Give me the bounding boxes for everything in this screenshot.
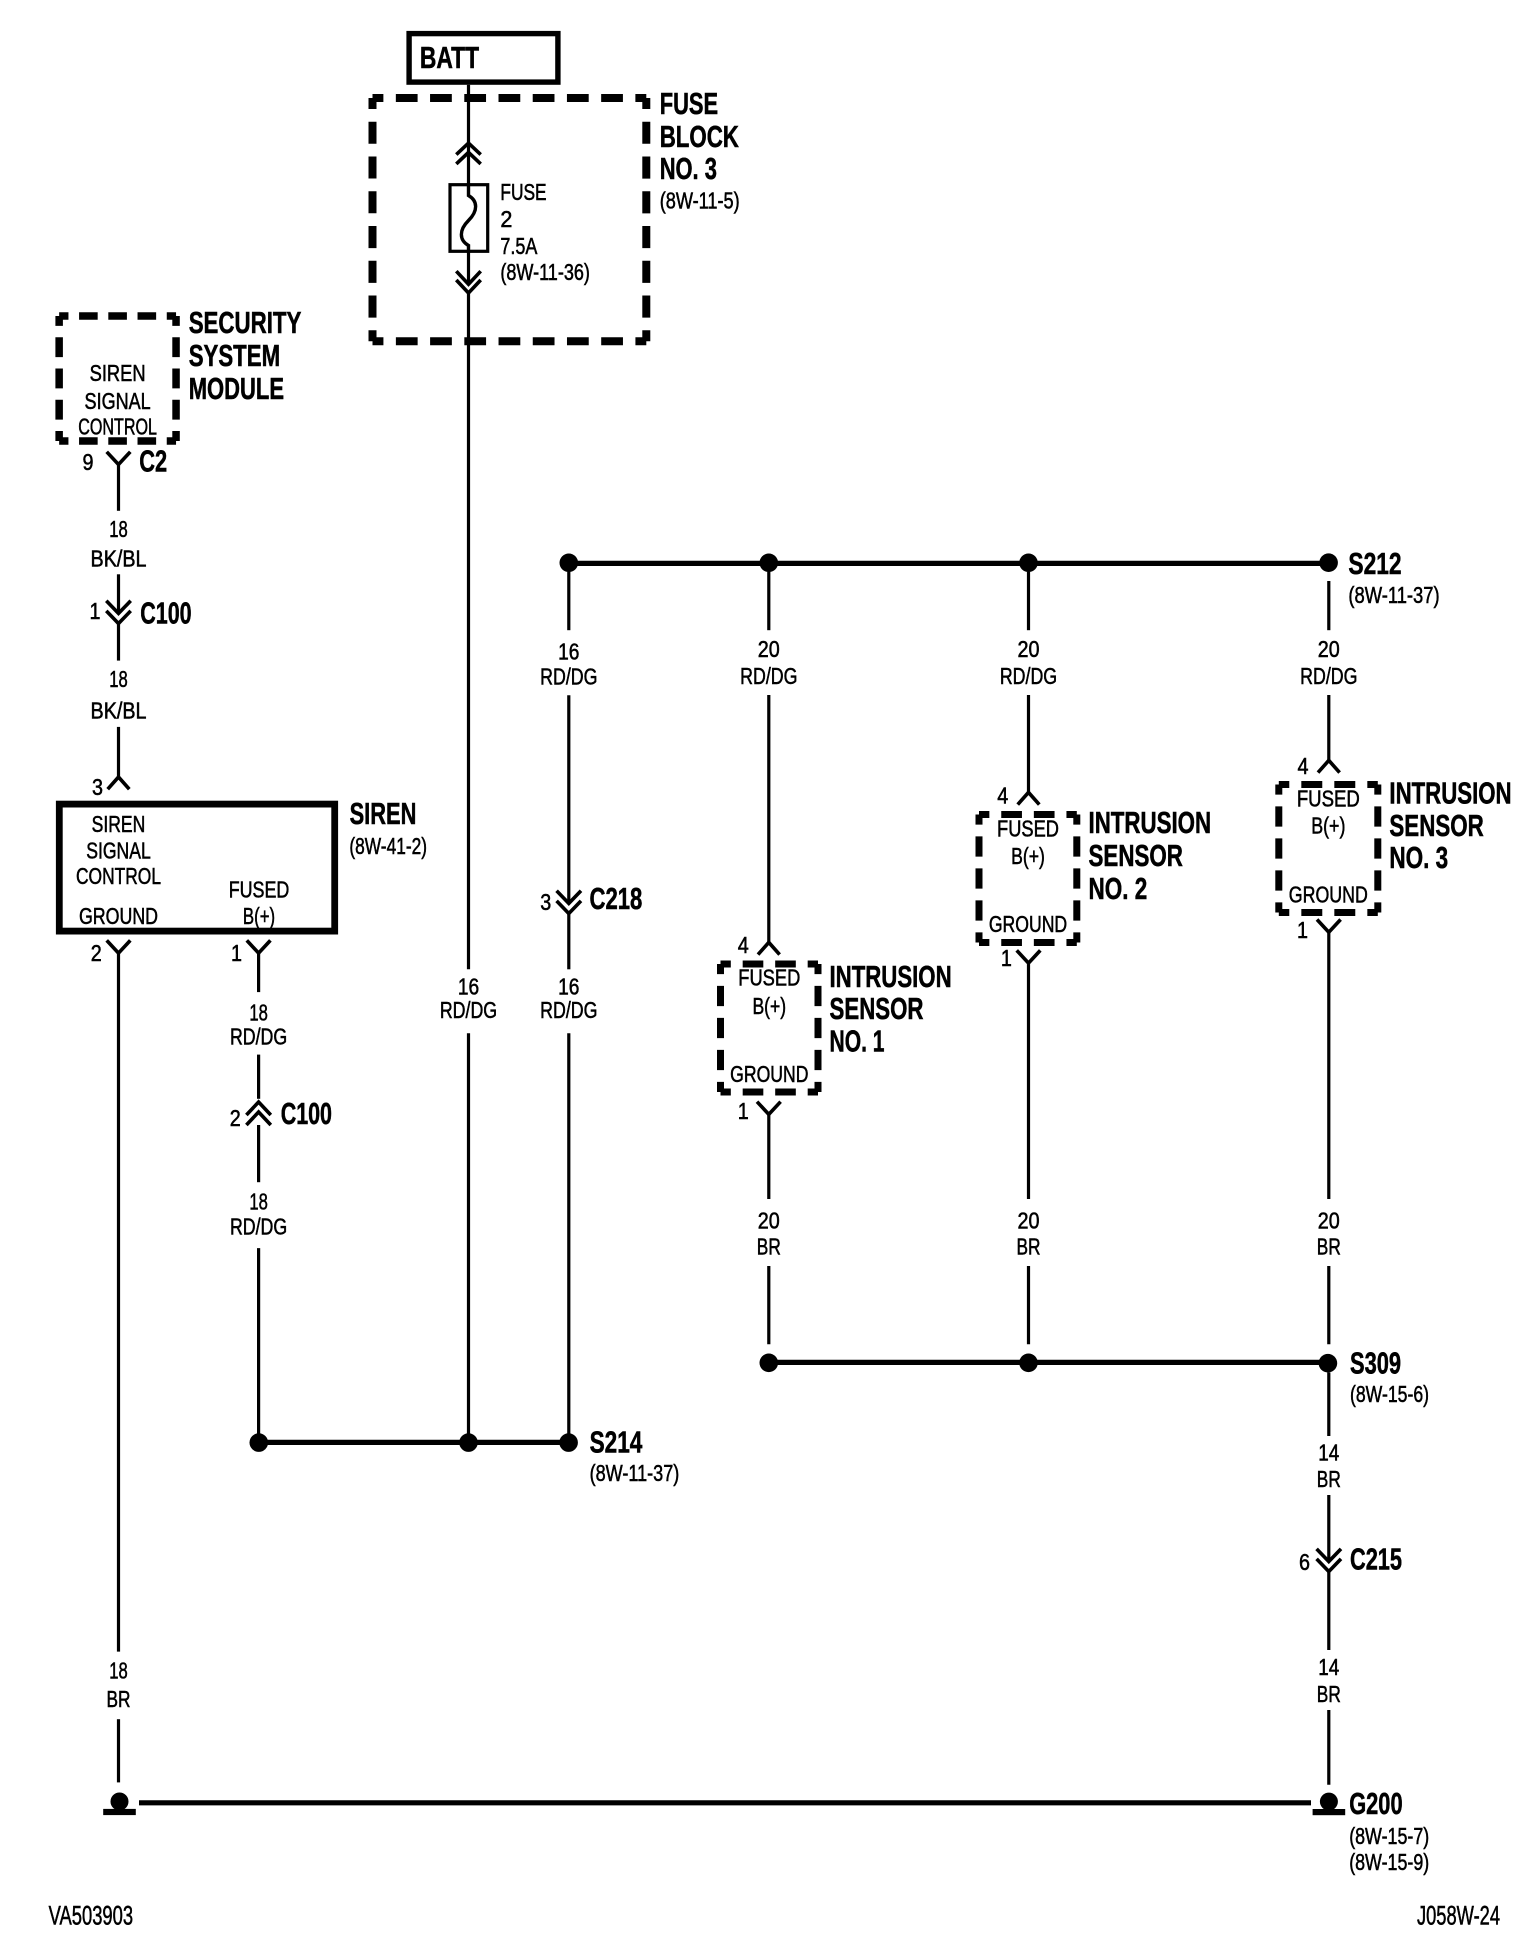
svg-text:GROUND: GROUND xyxy=(79,903,158,929)
svg-text:B(+): B(+) xyxy=(1311,813,1345,839)
wire to C218 xyxy=(567,695,570,901)
svg-text:RD/DG: RD/DG xyxy=(1000,663,1057,689)
svg-text:4: 4 xyxy=(738,932,749,958)
wire below C100 pin 2 xyxy=(257,1125,260,1182)
wire sensor 1 ground to S309 xyxy=(767,1266,770,1344)
fuse output chevrons xyxy=(456,271,480,293)
svg-text:3: 3 xyxy=(92,774,103,800)
svg-text:SENSOR: SENSOR xyxy=(1389,808,1483,843)
sensor 2 title INTRUSION SENSOR NO. 2 xyxy=(1089,805,1212,906)
wire S212 stub col G xyxy=(1327,581,1330,630)
wire to C215 xyxy=(1327,1495,1330,1559)
wire to splice S214 xyxy=(257,1248,260,1442)
ground label G200 (8W-15-7) (8W-15-9) xyxy=(1349,1786,1429,1875)
security system module dashed box xyxy=(59,316,176,441)
sensor 3 title INTRUSION SENSOR NO. 3 xyxy=(1389,775,1511,875)
svg-text:SIREN: SIREN xyxy=(92,811,146,837)
junction dot S212 col E xyxy=(760,554,779,573)
svg-text:14: 14 xyxy=(1318,1654,1339,1680)
svg-text:9: 9 xyxy=(83,449,94,475)
wire sensor 2 ground to S309 xyxy=(1027,1266,1030,1344)
junction dot S309 col E xyxy=(760,1354,779,1373)
svg-text:BR: BR xyxy=(1317,1466,1341,1492)
svg-text:SECURITY: SECURITY xyxy=(189,305,302,340)
svg-text:S309: S309 xyxy=(1350,1346,1401,1381)
svg-text:7.5A: 7.5A xyxy=(500,233,538,259)
svg-text:1: 1 xyxy=(1001,945,1012,971)
wire S212 stub col F xyxy=(1027,572,1030,630)
svg-text:CONTROL: CONTROL xyxy=(76,863,161,889)
wire sensor 1 ground upper xyxy=(767,1114,770,1199)
svg-text:BR: BR xyxy=(757,1234,781,1260)
svg-text:BK/BL: BK/BL xyxy=(91,546,147,572)
svg-text:BATT: BATT xyxy=(420,40,479,75)
svg-text:16: 16 xyxy=(558,973,579,999)
svg-text:BLOCK: BLOCK xyxy=(660,119,740,154)
svg-text:C218: C218 xyxy=(590,881,643,916)
sensor 3 pin 4 connector xyxy=(1298,753,1340,779)
fuse block title FUSE BLOCK NO. 3 (8W-11-5) xyxy=(660,86,740,213)
wire label 20 BR col G xyxy=(1317,1208,1341,1260)
sensor 1 pin labels xyxy=(730,965,808,1087)
svg-text:2: 2 xyxy=(500,206,512,232)
wire S212 stub col E xyxy=(767,572,770,630)
svg-text:GROUND: GROUND xyxy=(1289,881,1368,907)
wire fuse to chevrons xyxy=(467,253,470,282)
svg-text:J058W-24: J058W-24 xyxy=(1417,1901,1500,1931)
battery feed BATT box xyxy=(409,34,558,83)
sensor 1 pin 1 connector xyxy=(738,1098,781,1124)
fuse 2 symbol box xyxy=(450,183,488,253)
svg-text:RD/DG: RD/DG xyxy=(540,663,597,689)
sensor 1 pin 4 connector xyxy=(738,932,780,958)
wire to C100 xyxy=(117,574,120,611)
wire label 20 BR col F xyxy=(1017,1208,1041,1260)
svg-text:INTRUSION: INTRUSION xyxy=(1089,805,1212,840)
connector C215 pin 6 xyxy=(1299,1542,1402,1577)
junction dot S212 col F xyxy=(1019,554,1038,573)
svg-text:NO. 2: NO. 2 xyxy=(1089,871,1148,906)
svg-text:18: 18 xyxy=(249,999,268,1025)
svg-text:INTRUSION: INTRUSION xyxy=(830,959,952,994)
svg-text:NO. 3: NO. 3 xyxy=(1389,840,1448,875)
svg-text:(8W-15-7): (8W-15-7) xyxy=(1349,1823,1429,1849)
wire to ground G200 right xyxy=(1327,1710,1330,1785)
junction dot S212 right end xyxy=(1319,553,1338,572)
svg-text:BK/BL: BK/BL xyxy=(91,698,147,724)
svg-text:C2: C2 xyxy=(139,443,167,478)
siren pin 3 connector xyxy=(92,774,129,800)
connector C100 pin 2 xyxy=(230,1096,332,1131)
siren pin 2 connector xyxy=(91,940,131,966)
footer code VA503903 xyxy=(49,1900,134,1930)
siren pin labels xyxy=(76,811,289,929)
ground symbol right xyxy=(1313,1793,1346,1816)
wire below C215 xyxy=(1327,1572,1330,1651)
wire S212 stub col D xyxy=(567,572,570,630)
connector C100 pin 1 xyxy=(90,595,192,630)
svg-text:FUSED: FUSED xyxy=(1297,785,1360,811)
wire sensor 3 ground upper xyxy=(1327,932,1330,1199)
svg-text:2: 2 xyxy=(230,1105,241,1131)
sensor 2 pin 1 connector xyxy=(1001,945,1040,971)
sensor 3 pin labels xyxy=(1289,785,1368,907)
wire label 18 RD/DG lower xyxy=(230,1188,287,1239)
wire label 20 RD/DG col G xyxy=(1300,636,1357,689)
svg-text:18: 18 xyxy=(109,666,128,692)
svg-text:(8W-41-2): (8W-41-2) xyxy=(349,833,427,859)
ground G200 bus xyxy=(139,1800,1311,1805)
wire label 20 BR col E xyxy=(757,1208,781,1260)
svg-text:CONTROL: CONTROL xyxy=(78,414,157,440)
wire sensor 2 ground upper xyxy=(1027,964,1030,1199)
module title SECURITY SYSTEM MODULE xyxy=(189,305,302,406)
wire to C100 pin 2 xyxy=(257,1055,260,1099)
wire siren signal control upper xyxy=(117,465,120,511)
svg-text:4: 4 xyxy=(997,783,1008,809)
wire below C218 xyxy=(567,914,570,970)
svg-text:RD/DG: RD/DG xyxy=(740,663,797,689)
svg-text:16: 16 xyxy=(458,973,479,999)
svg-text:RD/DG: RD/DG xyxy=(540,997,597,1023)
wire label 18 BK/BL lower xyxy=(91,666,147,724)
svg-text:14: 14 xyxy=(1318,1440,1339,1466)
wire fuse block down to splice S214 xyxy=(467,293,470,969)
splice S214 bus xyxy=(259,1440,569,1445)
svg-text:FUSE: FUSE xyxy=(500,179,546,205)
svg-text:18: 18 xyxy=(249,1188,268,1214)
svg-text:16: 16 xyxy=(558,639,579,665)
wire to sensor 2 xyxy=(1027,695,1030,792)
svg-text:INTRUSION: INTRUSION xyxy=(1389,775,1511,810)
sensor 2 pin labels xyxy=(989,816,1067,937)
svg-text:RD/DG: RD/DG xyxy=(440,997,497,1023)
svg-text:G200: G200 xyxy=(1349,1786,1402,1821)
junction dot S214 mid xyxy=(459,1433,478,1452)
connector C218 pin 3 xyxy=(540,881,642,916)
svg-text:NO. 1: NO. 1 xyxy=(830,1024,885,1059)
wire batt feed lower xyxy=(467,1033,470,1442)
svg-text:(8W-11-37): (8W-11-37) xyxy=(1348,582,1439,608)
wire BATT to fuse xyxy=(467,85,470,183)
svg-text:FUSED: FUSED xyxy=(738,965,800,991)
svg-text:BR: BR xyxy=(107,1686,131,1712)
svg-text:SYSTEM: SYSTEM xyxy=(189,338,280,373)
splice S309 bus xyxy=(769,1360,1328,1365)
svg-text:2: 2 xyxy=(91,940,102,966)
svg-text:SENSOR: SENSOR xyxy=(830,991,924,1026)
svg-text:C215: C215 xyxy=(1350,1542,1402,1577)
junction dot S214 left xyxy=(249,1433,268,1452)
svg-text:SIREN: SIREN xyxy=(350,796,417,831)
svg-text:20: 20 xyxy=(1318,1208,1340,1234)
svg-text:20: 20 xyxy=(758,636,780,662)
svg-text:GROUND: GROUND xyxy=(989,911,1067,937)
splice label S212 (8W-11-37) xyxy=(1348,546,1439,608)
siren title SIREN (8W-41-2) xyxy=(349,796,427,859)
wire siren B(+) upper xyxy=(257,953,260,992)
svg-text:1: 1 xyxy=(231,940,242,966)
svg-text:(8W-11-5): (8W-11-5) xyxy=(660,188,740,214)
svg-text:3: 3 xyxy=(540,889,551,915)
svg-text:1: 1 xyxy=(1297,917,1308,943)
intrusion sensor no. 2 dashed box xyxy=(979,815,1077,943)
svg-text:(8W-15-9): (8W-15-9) xyxy=(1349,1849,1429,1875)
svg-text:GROUND: GROUND xyxy=(730,1061,808,1087)
wire label 18 BR xyxy=(107,1658,131,1713)
intrusion sensor no. 1 dashed box xyxy=(721,964,819,1092)
junction dot S309 right xyxy=(1319,1354,1338,1373)
svg-text:C100: C100 xyxy=(140,595,191,630)
splice label S309 (8W-15-6) xyxy=(1350,1346,1429,1408)
svg-text:20: 20 xyxy=(1018,1208,1040,1234)
wire below C100 xyxy=(117,624,120,661)
svg-text:6: 6 xyxy=(1299,1549,1310,1575)
wire label 20 RD/DG col E xyxy=(740,636,797,689)
svg-text:RD/DG: RD/DG xyxy=(1300,663,1357,689)
wire label 14 BR upper xyxy=(1317,1440,1341,1493)
connector C2 pin 9 xyxy=(83,443,168,478)
splice S212 bus xyxy=(569,561,1329,566)
svg-text:BR: BR xyxy=(1317,1234,1341,1260)
svg-text:FUSED: FUSED xyxy=(229,876,290,902)
junction dot S309 col F xyxy=(1019,1354,1038,1373)
wire S309 to C215 xyxy=(1327,1372,1330,1436)
svg-text:FUSE: FUSE xyxy=(660,86,718,121)
sensor 2 pin 4 connector xyxy=(997,783,1039,809)
svg-text:18: 18 xyxy=(109,516,128,542)
sensor 1 title INTRUSION SENSOR NO. 1 xyxy=(830,959,952,1058)
svg-text:B(+): B(+) xyxy=(243,903,275,929)
fuse input chevrons xyxy=(456,143,480,164)
svg-text:B(+): B(+) xyxy=(752,993,786,1019)
wire to sensor 3 xyxy=(1327,695,1330,760)
svg-text:(8W-11-36): (8W-11-36) xyxy=(500,259,590,285)
svg-text:RD/DG: RD/DG xyxy=(230,1024,287,1050)
svg-text:1: 1 xyxy=(90,598,101,624)
ground symbol left xyxy=(103,1793,136,1816)
wire to siren pin 3 xyxy=(117,727,120,777)
svg-text:SIGNAL: SIGNAL xyxy=(85,388,151,414)
svg-text:BR: BR xyxy=(1017,1234,1041,1260)
svg-text:SIREN: SIREN xyxy=(90,360,146,386)
svg-text:MODULE: MODULE xyxy=(189,371,284,406)
wire to ground G200 left xyxy=(117,1719,120,1782)
wire label 14 BR lower xyxy=(1317,1654,1341,1707)
svg-text:20: 20 xyxy=(1318,636,1340,662)
svg-text:SIGNAL: SIGNAL xyxy=(86,837,151,863)
fuse block NO. 3 dashed box xyxy=(373,98,647,341)
svg-text:(8W-15-6): (8W-15-6) xyxy=(1350,1381,1429,1407)
wire label 16 RD/DG (batt feed) xyxy=(440,973,497,1023)
fuse 2 label FUSE 2 7.5A (8W-11-36) xyxy=(500,179,590,285)
junction dot S214 right xyxy=(559,1433,578,1452)
junction dot S212 col D xyxy=(560,554,579,573)
wire label 18 RD/DG upper xyxy=(230,999,287,1049)
siren box xyxy=(59,804,334,931)
svg-text:4: 4 xyxy=(1298,753,1309,779)
wire label 16 RD/DG col D xyxy=(540,639,597,690)
svg-text:20: 20 xyxy=(758,1208,780,1234)
module pin label SIREN SIGNAL CONTROL xyxy=(78,360,157,440)
svg-text:C100: C100 xyxy=(281,1096,332,1131)
wire col D to splice S214 xyxy=(567,1033,570,1442)
svg-text:VA503903: VA503903 xyxy=(49,1900,134,1930)
sensor 3 pin 1 connector xyxy=(1297,917,1341,943)
svg-text:S214: S214 xyxy=(590,1424,643,1459)
wire sensor 3 ground to S309 xyxy=(1327,1266,1330,1344)
wire label 20 RD/DG col F xyxy=(1000,636,1057,689)
intrusion sensor no. 3 dashed box xyxy=(1279,785,1378,913)
svg-text:NO. 3: NO. 3 xyxy=(660,151,717,186)
wire label 18 BK/BL upper xyxy=(91,516,147,572)
svg-text:BR: BR xyxy=(1317,1681,1341,1707)
wire label 16 RD/DG col D lower xyxy=(540,973,597,1023)
svg-text:(8W-11-37): (8W-11-37) xyxy=(590,1460,680,1486)
svg-text:SENSOR: SENSOR xyxy=(1089,838,1183,873)
svg-text:B(+): B(+) xyxy=(1011,843,1045,869)
svg-text:20: 20 xyxy=(1018,636,1040,662)
svg-text:FUSED: FUSED xyxy=(997,816,1059,842)
wire siren ground xyxy=(117,953,120,1652)
siren pin 1 connector xyxy=(231,940,270,966)
svg-text:S212: S212 xyxy=(1348,546,1401,581)
svg-text:18: 18 xyxy=(109,1658,128,1684)
svg-text:1: 1 xyxy=(738,1098,749,1124)
footer code J058W-24 xyxy=(1417,1901,1500,1931)
svg-text:RD/DG: RD/DG xyxy=(230,1214,287,1240)
wire to sensor 1 xyxy=(767,695,770,942)
splice label S214 (8W-11-37) xyxy=(590,1424,680,1486)
